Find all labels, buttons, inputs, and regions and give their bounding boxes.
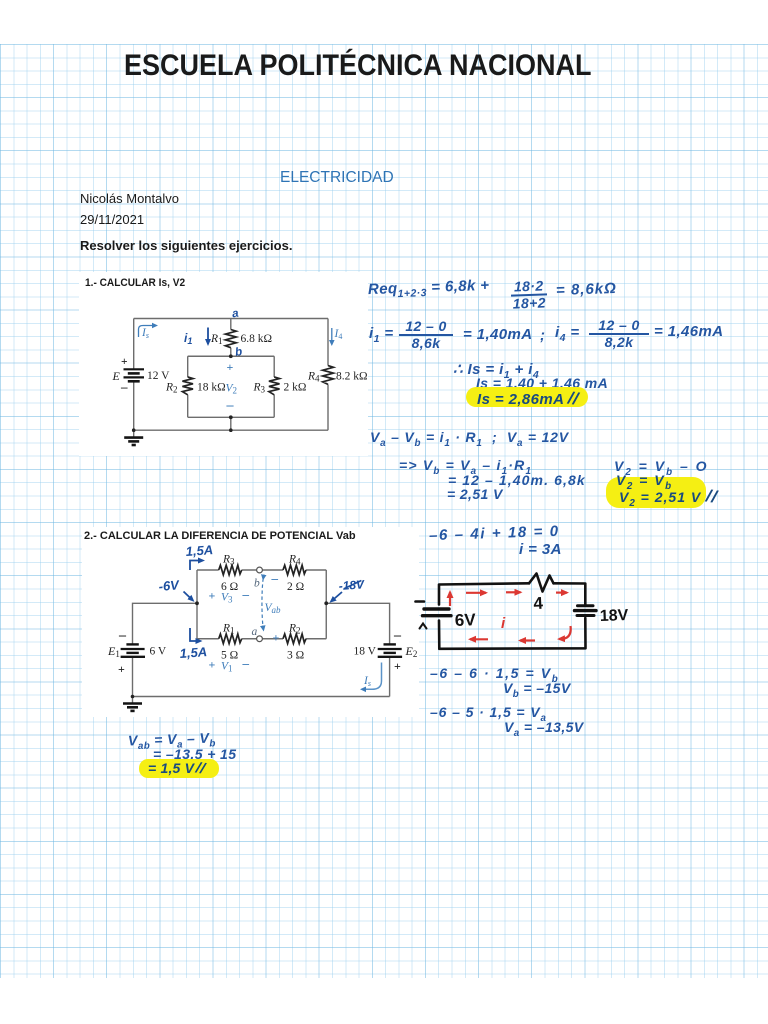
handwritten math: Vab result bottom left	[128, 729, 216, 752]
handwritten elbow arrow bottom	[190, 628, 201, 641]
label E	[112, 369, 121, 383]
ground	[124, 430, 143, 445]
svg-text:V3: V3	[221, 592, 233, 605]
resistor R2 3 Ohm zigzag	[283, 634, 306, 644]
red hook arrow bottom right	[559, 626, 571, 639]
wire: middle vertical to bottom	[230, 417, 232, 430]
handwritten -18V (scribbled)	[338, 577, 365, 593]
handwritten math: exercise 2	[429, 523, 560, 545]
white patch behind figure 1	[79, 272, 368, 456]
svg-text:Is: Is	[141, 327, 149, 340]
label R1	[210, 333, 223, 346]
svg-text:i: i	[501, 615, 506, 632]
svg-text:R1: R1	[222, 622, 235, 635]
hand-drawn battery 6V bars	[423, 609, 452, 616]
wire: bridge right edge	[325, 570, 327, 639]
battery E 12V	[124, 369, 145, 381]
label R2	[165, 382, 178, 395]
wire: bottom branch segments	[197, 638, 326, 640]
hand-drawn wire loop	[439, 583, 586, 649]
resistor R4 8.2k zigzag	[323, 366, 334, 385]
svg-text:6 V: 6 V	[150, 646, 167, 658]
ground	[123, 697, 142, 711]
highlight Vab result	[139, 759, 219, 778]
red current arrow right 2	[506, 591, 521, 593]
resistor R1 6.8k zigzag	[225, 330, 236, 348]
svg-text:R3: R3	[253, 382, 266, 395]
svg-text:+: +	[118, 662, 125, 676]
battery E1 6V	[121, 644, 145, 656]
red current arrow left (bottom middle)	[520, 639, 535, 641]
exercise 2 title	[84, 530, 356, 542]
instruction	[80, 238, 292, 253]
svg-text:-6V: -6V	[158, 577, 181, 594]
wire: outer loop top	[134, 318, 328, 320]
svg-text:+: +	[209, 658, 216, 672]
svg-text:+: +	[227, 360, 234, 374]
handwritten math: exercise 1	[368, 277, 490, 301]
svg-text:18V: 18V	[600, 607, 629, 625]
svg-text:R2: R2	[288, 622, 301, 635]
wire: outer bottom	[134, 429, 328, 431]
white patch behind figure 2	[82, 527, 419, 717]
svg-text:6V: 6V	[454, 610, 476, 630]
svg-text:6.8 kΩ: 6.8 kΩ	[241, 333, 273, 345]
svg-text:Vab: Vab	[265, 602, 282, 615]
label R3	[253, 382, 266, 395]
svg-text:a: a	[231, 307, 240, 320]
svg-text:+: +	[121, 356, 128, 368]
label V2 with polarity (printed blue)	[226, 360, 238, 413]
node dot: left node	[195, 601, 199, 605]
svg-text:i1: i1	[184, 331, 192, 346]
svg-text:2 Ω: 2 Ω	[287, 581, 304, 593]
label V1 with polarity (printed blue)	[209, 656, 250, 674]
svg-text:Is: Is	[363, 675, 371, 688]
label R4	[307, 371, 320, 384]
node a open circle	[257, 636, 263, 642]
Vab dashed arrow b to a	[262, 579, 263, 630]
current arrow I4 (printed blue)	[331, 328, 333, 344]
svg-text:8.2 kΩ: 8.2 kΩ	[336, 371, 368, 383]
handwritten elbow arrow top	[190, 561, 203, 571]
svg-text:E: E	[112, 369, 121, 383]
label V3 with polarity (printed blue)	[209, 587, 250, 605]
handwritten arrow to left node	[184, 592, 194, 601]
wire: bridge left edge	[196, 570, 198, 639]
svg-text:R2: R2	[165, 382, 178, 395]
node dot: inner box top (node b)	[229, 354, 233, 358]
resistor R2 18k zigzag	[182, 377, 193, 395]
hand-drawn battery 18V bars	[575, 606, 597, 616]
svg-text:18 kΩ: 18 kΩ	[197, 382, 226, 394]
svg-text:R4: R4	[307, 371, 320, 384]
wire: outer left segments around battery E	[133, 319, 135, 431]
svg-text:+: +	[273, 631, 280, 645]
svg-text:+: +	[394, 659, 401, 673]
svg-text:1,5A: 1,5A	[179, 644, 207, 661]
red current arrow left (bottom left)	[470, 638, 488, 640]
battery 6V plus mark	[420, 624, 427, 629]
node dot: inner box bottom	[229, 415, 233, 419]
resistor R1 5 Ohm zigzag	[219, 634, 242, 644]
battery E2 18V	[378, 644, 402, 656]
wire: top branch segments	[197, 569, 326, 571]
wire: bottom return	[133, 696, 390, 698]
svg-text:–: –	[120, 379, 128, 394]
label 12 V	[147, 370, 170, 382]
wire: left branch from E1 to left node	[133, 603, 198, 643]
svg-text:R4: R4	[288, 554, 301, 567]
svg-text:4: 4	[533, 594, 544, 613]
svg-text:R3: R3	[222, 554, 235, 567]
handwritten arrow down beside R1	[207, 328, 209, 345]
current arrow Is (printed blue)	[139, 326, 157, 338]
red current arrow right 1	[466, 592, 486, 594]
handwritten arrow to right node	[331, 592, 342, 602]
wire: E1 bottom to ground corner	[132, 658, 134, 697]
svg-text:+: +	[209, 589, 216, 603]
highlight V2 result	[606, 477, 706, 508]
wire: inner parallel box	[188, 356, 275, 417]
wire: R1 branch vertical	[230, 319, 232, 357]
main title	[124, 49, 592, 83]
node dot: bottom wire junction	[229, 428, 233, 432]
svg-text:–: –	[242, 587, 250, 602]
wire: outer right segments around R4	[327, 319, 329, 431]
svg-text:b: b	[234, 346, 243, 359]
svg-text:R1: R1	[210, 333, 223, 346]
hand-drawn resistor 4 (zigzag)	[529, 574, 554, 592]
wire: right branch from E2 to right node	[326, 603, 389, 696]
svg-text:1,5A: 1,5A	[185, 542, 213, 559]
svg-text:–: –	[226, 398, 235, 413]
resistor R4 2 Ohm zigzag	[283, 565, 306, 575]
resistor R3 2k zigzag	[269, 377, 280, 395]
svg-text:–: –	[118, 628, 127, 643]
svg-text:–: –	[242, 656, 250, 671]
node dot: ground junction	[131, 695, 135, 699]
date	[80, 212, 144, 227]
resistor R3 6 Ohm zigzag	[219, 565, 242, 575]
svg-text:–: –	[271, 571, 279, 586]
current arrow Is (printed blue)	[362, 663, 382, 690]
svg-text:18 V: 18 V	[354, 646, 377, 658]
subject title	[280, 169, 394, 187]
svg-text:a: a	[252, 626, 258, 638]
red current arrow up (left side)	[449, 592, 451, 606]
author	[80, 191, 179, 206]
svg-text:–: –	[393, 628, 402, 643]
svg-text:I4: I4	[334, 328, 343, 341]
svg-text:V2: V2	[226, 383, 238, 396]
node dot: battery bottom junction	[132, 428, 136, 432]
exercise 1 title	[85, 277, 185, 289]
svg-text:2 kΩ: 2 kΩ	[284, 382, 307, 394]
red current arrow right 3 (after resistor)	[556, 591, 567, 593]
svg-text:12 V: 12 V	[147, 370, 170, 382]
svg-text:E1: E1	[107, 644, 120, 659]
svg-text:b: b	[254, 578, 260, 590]
node dot: right node	[324, 601, 328, 605]
svg-text:V1: V1	[221, 661, 233, 674]
svg-text:3 Ω: 3 Ω	[287, 650, 304, 662]
battery 6V minus sign	[416, 600, 425, 603]
highlight Is result	[466, 387, 588, 407]
node b open circle	[257, 567, 263, 573]
